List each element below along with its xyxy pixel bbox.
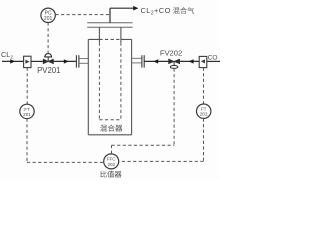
svg-text:FFC: FFC (107, 157, 116, 162)
svg-text:CL2: CL2 (1, 50, 13, 61)
svg-text:CL2+CO: CL2+CO (141, 6, 171, 17)
svg-text:201: 201 (44, 16, 53, 22)
svg-text:FV202: FV202 (160, 49, 182, 58)
svg-text:PV201: PV201 (37, 66, 60, 75)
svg-text:202: 202 (200, 112, 208, 117)
svg-text:201: 201 (23, 112, 31, 117)
svg-text:CO: CO (208, 55, 218, 62)
svg-text:202: 202 (107, 162, 115, 167)
